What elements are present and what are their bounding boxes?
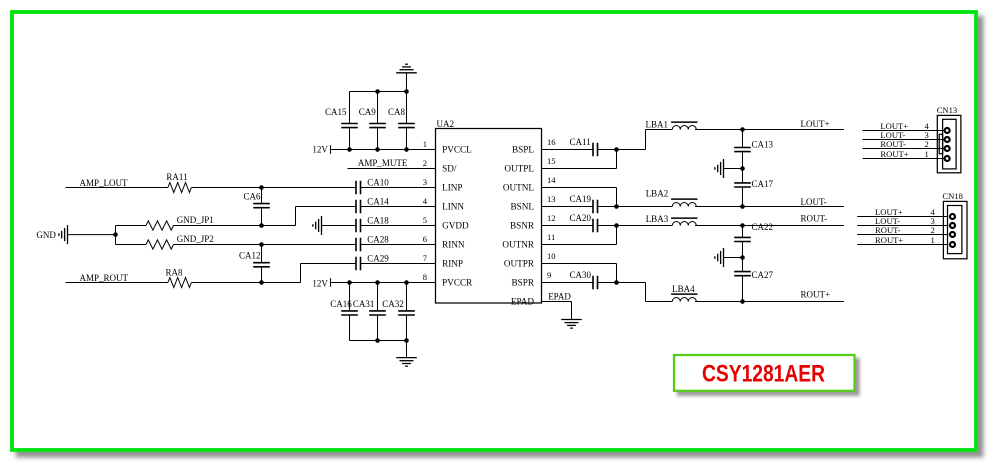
svg-text:2: 2 — [925, 139, 929, 149]
svg-text:RA11: RA11 — [166, 172, 187, 182]
svg-text:7: 7 — [423, 253, 428, 263]
svg-text:CA17: CA17 — [752, 179, 774, 189]
svg-text:15: 15 — [547, 156, 556, 166]
svg-text:CA22: CA22 — [752, 222, 774, 232]
svg-text:CA30: CA30 — [570, 270, 592, 280]
svg-text:LOUT-: LOUT- — [801, 197, 827, 207]
svg-text:LINN: LINN — [442, 202, 464, 212]
svg-text:AMP_ROUT: AMP_ROUT — [80, 273, 129, 283]
svg-text:1: 1 — [931, 235, 935, 245]
svg-text:OUTNL: OUTNL — [503, 183, 535, 193]
svg-text:OUTPR: OUTPR — [504, 259, 535, 269]
svg-text:CN18: CN18 — [942, 191, 963, 201]
svg-text:14: 14 — [547, 175, 556, 185]
svg-text:CA16: CA16 — [330, 299, 352, 309]
svg-text:BSPR: BSPR — [512, 278, 535, 288]
svg-text:ROUT+: ROUT+ — [801, 289, 831, 299]
svg-text:2: 2 — [931, 225, 935, 235]
svg-text:CA13: CA13 — [752, 140, 774, 150]
svg-text:ROUT-: ROUT- — [880, 139, 906, 149]
svg-text:BSNL: BSNL — [511, 202, 535, 212]
svg-text:OUTNR: OUTNR — [502, 240, 535, 250]
svg-text:CA19: CA19 — [570, 194, 592, 204]
svg-text:CA14: CA14 — [367, 197, 389, 207]
svg-text:CA12: CA12 — [239, 251, 261, 261]
svg-text:2: 2 — [423, 158, 427, 168]
svg-text:13: 13 — [547, 194, 556, 204]
svg-text:ROUT-: ROUT- — [801, 213, 828, 223]
svg-text:4: 4 — [423, 196, 428, 206]
svg-text:CA29: CA29 — [367, 254, 389, 264]
svg-text:3: 3 — [423, 177, 427, 187]
svg-text:RA8: RA8 — [166, 268, 184, 278]
svg-text:CA28: CA28 — [367, 235, 389, 245]
svg-text:AMP_LOUT: AMP_LOUT — [80, 178, 129, 188]
svg-text:12V: 12V — [312, 278, 328, 288]
svg-text:SD/: SD/ — [442, 164, 457, 174]
svg-text:EPAD: EPAD — [548, 291, 571, 301]
svg-text:LBA2: LBA2 — [646, 189, 669, 199]
svg-text:AMP_MUTE: AMP_MUTE — [358, 158, 408, 168]
svg-text:UA2: UA2 — [437, 119, 455, 129]
svg-text:CA27: CA27 — [752, 270, 774, 280]
svg-text:CA6: CA6 — [243, 192, 261, 202]
svg-text:ROUT+: ROUT+ — [875, 235, 903, 245]
svg-text:CA32: CA32 — [382, 299, 404, 309]
svg-text:GND_JP1: GND_JP1 — [177, 215, 214, 225]
svg-text:ROUT-: ROUT- — [875, 225, 901, 235]
svg-text:PVCCR: PVCCR — [442, 278, 473, 288]
svg-text:CN13: CN13 — [937, 105, 958, 115]
svg-text:16: 16 — [547, 137, 556, 147]
svg-text:CA10: CA10 — [367, 178, 389, 188]
svg-text:GND_JP2: GND_JP2 — [177, 234, 214, 244]
svg-text:CA9: CA9 — [359, 107, 377, 117]
svg-text:CA15: CA15 — [325, 107, 347, 117]
svg-text:CA18: CA18 — [367, 216, 389, 226]
svg-text:6: 6 — [423, 234, 428, 244]
svg-text:CSY1281AER: CSY1281AER — [702, 361, 825, 388]
svg-text:LINP: LINP — [442, 183, 462, 193]
svg-text:11: 11 — [547, 232, 555, 242]
svg-text:RINN: RINN — [442, 240, 465, 250]
svg-text:CA11: CA11 — [570, 137, 591, 147]
svg-text:BSPL: BSPL — [512, 145, 534, 155]
svg-text:LBA1: LBA1 — [646, 119, 669, 129]
svg-text:CA20: CA20 — [570, 213, 592, 223]
svg-text:CA31: CA31 — [353, 299, 375, 309]
svg-text:ROUT+: ROUT+ — [880, 149, 908, 159]
svg-text:GVDD: GVDD — [442, 221, 469, 231]
svg-text:10: 10 — [547, 251, 556, 261]
svg-text:1: 1 — [423, 139, 427, 149]
svg-text:RINP: RINP — [442, 259, 463, 269]
svg-text:LBA4: LBA4 — [672, 284, 695, 294]
svg-text:CA8: CA8 — [388, 107, 406, 117]
svg-text:GND: GND — [36, 230, 56, 240]
svg-text:1: 1 — [925, 149, 929, 159]
svg-text:OUTPL: OUTPL — [504, 164, 534, 174]
svg-text:12V: 12V — [312, 144, 328, 154]
svg-text:PVCCL: PVCCL — [442, 145, 472, 155]
svg-text:5: 5 — [423, 215, 427, 225]
svg-text:LOUT+: LOUT+ — [801, 119, 830, 129]
svg-text:8: 8 — [423, 272, 427, 282]
svg-text:BSNR: BSNR — [510, 221, 535, 231]
svg-text:12: 12 — [547, 213, 556, 223]
svg-text:9: 9 — [547, 270, 551, 280]
svg-text:LBA3: LBA3 — [646, 214, 669, 224]
svg-text:EPAD: EPAD — [511, 297, 535, 307]
